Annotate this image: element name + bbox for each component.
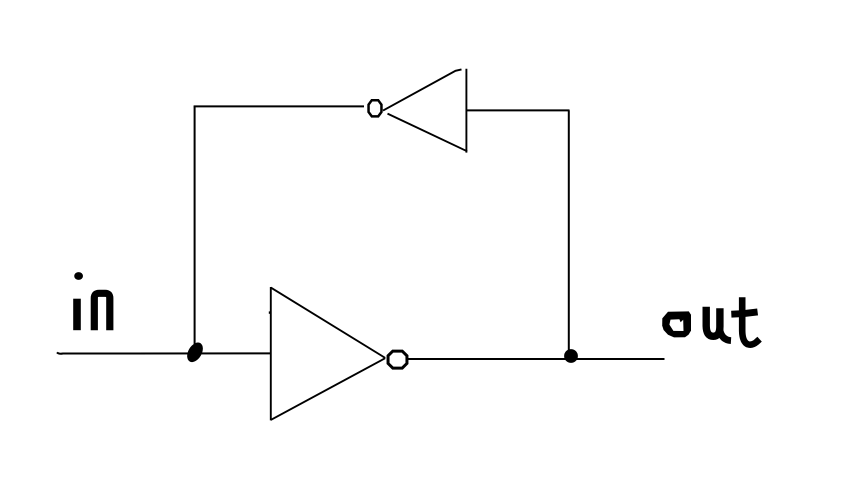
wire: top feedback horizontal (194, 105, 364, 107)
wire: output net (bottom horizontal) (408, 358, 665, 360)
node: input junction (184, 340, 206, 365)
label out (662, 297, 759, 344)
inverter U1 output bubble (388, 351, 407, 368)
wire: U2 input stub to right vertical (467, 109, 570, 111)
wire: right vertical (568, 110, 570, 356)
label in (74, 272, 110, 330)
inverter U1 triangle (points right) (270, 287, 386, 420)
node: output junction (564, 349, 578, 363)
inverter U2 triangle (points left) (383, 69, 467, 153)
wire: input net (left horizontal) (57, 352, 271, 353)
inverter U2 output bubble (369, 100, 382, 116)
wire: left vertical feedback (194, 106, 196, 352)
